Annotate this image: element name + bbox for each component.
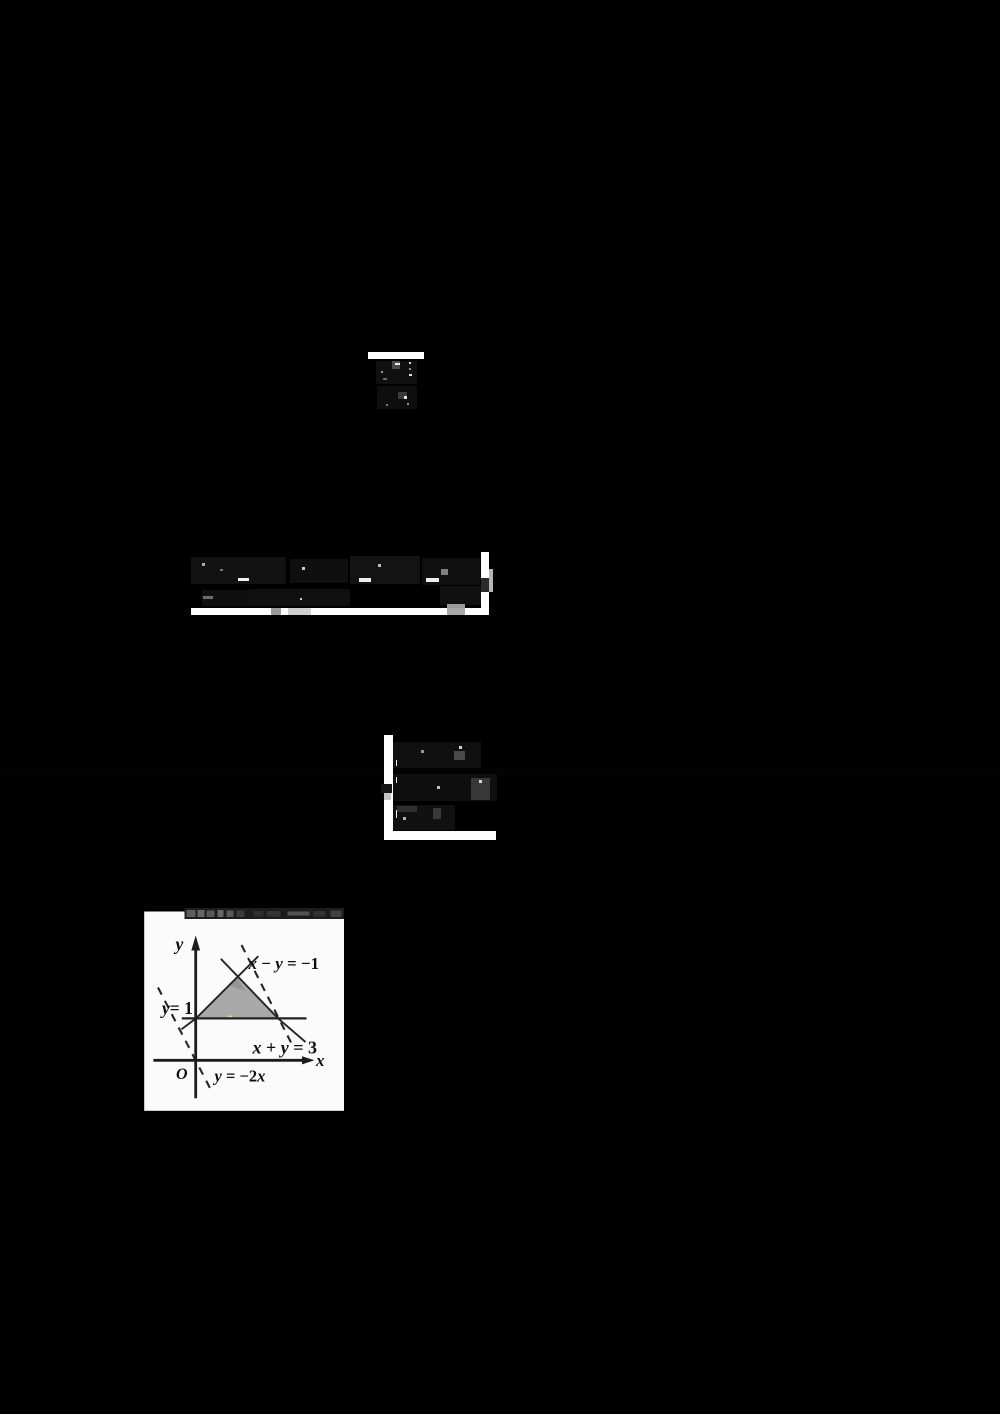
yellow dot on y=1 line bbox=[227, 1016, 232, 1019]
block C: white left bar bbox=[384, 735, 392, 839]
svg-text:y: y bbox=[173, 934, 183, 954]
svg-text:y= 1: y= 1 bbox=[160, 998, 193, 1018]
block A: faint formula cluster 1 bbox=[376, 361, 417, 385]
block C: dark mark over left bar bbox=[381, 784, 392, 793]
svg-text:y = −2x: y = −2x bbox=[212, 1067, 265, 1086]
svg-text:x + y = 3: x + y = 3 bbox=[251, 1038, 317, 1058]
y axis bbox=[194, 948, 197, 1098]
line x-y=-1 bbox=[181, 956, 258, 1029]
line x+y=3 bbox=[220, 959, 305, 1042]
block A: small white bar bbox=[368, 352, 424, 360]
dark caption band above figure bbox=[184, 908, 344, 919]
figure: linear programming plot bbox=[144, 906, 345, 1111]
block B: faint equation row 1 bbox=[191, 557, 286, 584]
block A: faint formula cluster 2 bbox=[377, 386, 417, 409]
svg-text:x − y = −1: x − y = −1 bbox=[247, 954, 319, 973]
block B: white bottom bar bbox=[191, 608, 489, 615]
figure white background bbox=[144, 912, 344, 1111]
block C: equations rows bbox=[393, 742, 481, 768]
dashed line y=-2x bbox=[158, 988, 213, 1094]
dashed line right bbox=[241, 945, 291, 1043]
faint full-width stripe bbox=[0, 768, 1000, 776]
block C: white bottom bar bbox=[384, 831, 496, 839]
svg-text:O: O bbox=[176, 1066, 188, 1083]
y=1 horizontal line bbox=[181, 1017, 306, 1019]
block B: white right bar bbox=[481, 552, 489, 616]
block B: faint equation row 2 bbox=[202, 590, 275, 606]
x axis bbox=[153, 1059, 302, 1062]
triangle shaded region bbox=[196, 977, 277, 1017]
